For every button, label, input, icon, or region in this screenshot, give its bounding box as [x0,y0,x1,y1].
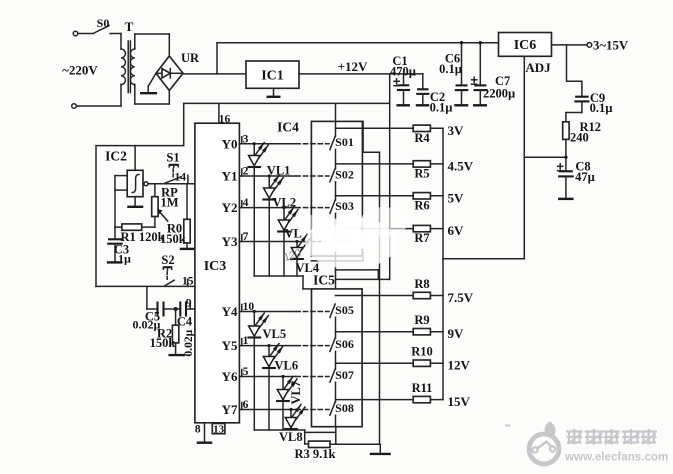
node 15V tap [448,394,471,409]
svg-text:VL6: VL6 [275,359,299,373]
switch S1 [165,151,181,184]
ground (C7) [473,104,487,106]
svg-text:150k: 150k [160,232,186,246]
capacitor C6 0.1µ [439,43,468,105]
svg-text:S01: S01 [335,135,354,149]
svg-text:VL: VL [285,227,302,241]
svg-text:+12V: +12V [338,59,368,74]
switch S05 [296,296,443,318]
svg-text:5V: 5V [448,190,465,205]
svg-text:S03: S03 [335,199,354,213]
svg-text:0.02µ: 0.02µ [183,329,195,356]
svg-text:www.elecfans.com: www.elecfans.com [564,451,668,464]
svg-text:6V: 6V [448,223,465,238]
switch S04 [296,229,443,248]
switch S06 [296,332,443,352]
svg-text:15: 15 [182,276,194,288]
wire switch rail segment [335,213,337,234]
node 9V tap [448,326,465,341]
watermark small dash [505,425,510,427]
pin 15 tick [182,276,205,293]
wire S2 branch down [146,286,148,309]
node 3V tap [448,123,465,138]
svg-text:8: 8 [195,424,201,436]
analog switch IC5 box [312,273,363,427]
svg-text:2200µ: 2200µ [483,87,515,101]
wire Y5 row / pin 1 [222,335,296,353]
svg-text:Y7: Y7 [222,402,238,417]
switch S0 input terminal (top) [73,31,93,36]
svg-text:S06: S06 [335,337,354,351]
wire ADJ to resistor bus [443,258,524,260]
node 5V tap [448,190,465,205]
resistor R2 150k [150,309,179,354]
switch S0 [93,16,121,34]
svg-text:IC5: IC5 [313,273,335,288]
capacitor C9 0.1µ [574,91,612,115]
svg-text:VL7: VL7 [289,381,303,405]
ground (R0) [180,248,195,250]
svg-text:0.1µ: 0.1µ [439,62,462,76]
svg-text:Y0: Y0 [222,136,238,151]
wire IC6 ADJ down [523,56,525,258]
switch S03 [296,196,443,214]
svg-text:R6: R6 [414,198,429,212]
resistor R6 [413,193,430,213]
svg-text:3: 3 [243,133,249,145]
input terminal (bottom) [72,104,121,109]
svg-text:10: 10 [243,301,255,313]
node Y3/VL4 junction [295,240,298,243]
svg-text:5: 5 [243,366,249,378]
svg-text:S07: S07 [335,368,354,382]
svg-text:1M: 1M [160,196,178,210]
label CP [196,177,213,192]
svg-text:S05: S05 [335,303,354,317]
wire switch rail segment [335,415,337,426]
capacitor C7 2200µ [472,43,516,105]
svg-text:47µ: 47µ [575,170,595,184]
wire pin 16 to IC3 [219,103,231,125]
regulator IC1 [246,61,299,88]
svg-text:IC3: IC3 [204,259,227,274]
svg-text:3V: 3V [448,123,465,138]
svg-text:R5: R5 [414,166,429,180]
node Y2/VL3 junction [282,206,285,209]
svg-text:IC2: IC2 [105,149,127,164]
ground (IC1) [267,88,281,97]
wire LED cathode bus (VL1-VL4) [254,276,311,289]
svg-text:3~15V: 3~15V [593,38,629,52]
svg-text:Y1: Y1 [222,169,238,184]
output terminal 3~15V [552,38,629,52]
capacitor C5 0.02µ [133,302,176,332]
timer IC2 box outline [96,146,184,287]
ground (C3) [107,261,123,263]
switch S02 [296,164,443,182]
ground (C1) [396,104,410,106]
resistor R12 240 [563,120,601,145]
svg-text:S0: S0 [97,16,110,30]
svg-text:14: 14 [175,172,187,184]
svg-text:T: T [125,19,134,34]
wire switch rail segment [335,150,337,169]
wire oscillator feedback [115,176,127,228]
resistor R1 120k [115,224,165,244]
svg-text:S08: S08 [335,401,354,415]
svg-text:S1: S1 [166,151,179,165]
node 7.5V tap [448,290,474,305]
wire switch rail segment [335,247,337,289]
svg-text:470µ: 470µ [390,65,416,79]
wire Y3 row / pin 7 [222,231,296,249]
capacitor C4 0.02µ [176,302,195,357]
svg-text:Y3: Y3 [222,234,238,249]
svg-text:7.5V: 7.5V [448,290,474,305]
svg-text:Y6: Y6 [222,369,238,384]
wire Y4 row / pin 10 [222,301,296,319]
wire top bus [217,42,499,44]
capacitor C3 1µ [107,227,131,265]
wire +12V rail [299,59,423,74]
resistor R11 [412,381,433,403]
watermark text 电子发烧友 [566,429,657,445]
ground (C6) [454,104,468,106]
svg-text:7: 7 [243,231,249,243]
resistor R0 150k [160,184,190,248]
pin 9 tick [186,298,214,317]
svg-text:150k: 150k [150,336,176,350]
wire secondary bottom to bridge [135,91,170,105]
svg-text:12V: 12V [448,358,471,373]
wire common down to ground bus [379,152,381,444]
ground (main) [370,444,391,454]
wire LED cathode bus (VL5-VL8) [254,430,335,444]
svg-text:240: 240 [570,131,589,145]
wire VDD bus [184,102,390,104]
svg-text:R8: R8 [414,277,429,291]
resistor R8 [413,277,430,299]
wire switch rail segment [335,351,337,369]
node C5/C4/R2 junction [174,307,178,311]
wire Y1 row / pin 2 [222,166,296,184]
watermark elecfans logo [529,421,559,464]
label ~220V [62,63,98,78]
node 4.5V tap [448,158,474,173]
svg-text:0.1µ: 0.1µ [590,101,613,115]
node Y7/VL8 junction [289,408,292,411]
node C7 on bus [479,41,482,44]
resistor R9 [413,313,430,335]
switch S07 [296,363,443,382]
transformer T secondary winding [130,34,134,104]
LED VL2 [262,175,296,276]
ground (C8) [558,198,574,200]
node Y0/VL1 junction [253,142,256,145]
svg-text:UR: UR [181,51,200,65]
LED VL1 [247,143,290,277]
svg-text:VL5: VL5 [263,327,287,341]
svg-text:15V: 15V [448,394,471,409]
LED VL8 [279,405,305,445]
wire output branch to C9 [567,45,582,96]
counter IC3 [195,123,240,423]
svg-text:IC6: IC6 [514,38,537,53]
svg-text:R7: R7 [414,231,429,245]
ground (C2) [416,104,430,106]
svg-text:IC4: IC4 [277,120,299,135]
wire jog below IC4 a [311,253,363,261]
switch S08 [296,400,443,416]
bridge rectifier UR [156,51,200,91]
svg-text:9: 9 [186,298,192,310]
svg-text:S2: S2 [161,253,174,267]
svg-text:R9: R9 [414,313,429,327]
transformer T core [125,19,134,93]
wire ADJ junction [524,156,567,159]
wire switch rail segment [335,382,337,402]
resistor R4 [413,125,430,145]
wire VDD to IC2 [183,103,185,145]
node Y6/VL7 junction [281,375,284,378]
node Y5/VL6 junction [267,344,270,347]
ground (IC3) [195,423,212,443]
pin 13 box [212,423,225,435]
svg-text:Y4: Y4 [222,304,238,319]
resistor R3 9.1k [295,441,381,461]
wire C9 to R12 [566,113,582,122]
capacitor C8 47µ [558,157,595,198]
label ADJ [525,60,551,75]
svg-text:13: 13 [213,423,225,435]
node 6V tap [448,223,465,238]
wire switch rail segment [335,317,337,338]
capacitor C1 470µ [390,54,416,104]
ground (oscillator) [127,197,143,207]
capacitor C2 0.1µ [416,74,452,115]
wire LED return to R3 [305,443,309,445]
svg-text:R11: R11 [412,381,433,395]
wire Y7 row / pin 6 [222,399,296,417]
svg-text:ADJ: ADJ [525,60,551,75]
svg-text:9V: 9V [448,326,465,341]
svg-text:4.5V: 4.5V [448,158,474,173]
wire jog below IC4 b [336,270,379,280]
switch S01 [296,128,443,149]
svg-text:6: 6 [243,399,249,411]
wire IC2 to oscillator [134,146,136,171]
wire IC4 common jog [363,121,379,152]
transformer T primary winding [121,34,125,107]
node Y4/VL5 junction [253,310,256,313]
svg-text:0.1µ: 0.1µ [430,101,453,115]
svg-text:Y5: Y5 [222,338,238,353]
svg-text:R10: R10 [411,345,433,359]
wire node to top bus [216,43,218,74]
watermark blur blob [282,207,408,269]
analog switch IC4 box [277,120,362,257]
wire switch rail from VDD [335,103,337,136]
svg-text:S02: S02 [335,167,354,181]
wire Y6 row / pin 5 [222,366,296,384]
resistor R7 [413,225,430,245]
potentiometer RP 1M [152,184,179,227]
LED VL7 [276,377,303,431]
wire Y2 row / pin 4 [222,197,296,215]
wire +12V down to switch common [389,74,391,280]
svg-text:VL8: VL8 [279,430,303,444]
svg-text:Y2: Y2 [222,200,238,215]
svg-text:IC1: IC1 [261,69,284,84]
resistor R10 [411,345,433,367]
svg-text:R4: R4 [414,131,430,145]
node Y1/VL2 junction [268,174,271,177]
wire secondary top to bridge [135,34,170,56]
svg-text:R3 9.1k: R3 9.1k [295,447,336,461]
wire R12 to ADJ junction [565,139,567,157]
wire R line (IC2 bottom) [96,285,195,287]
wire Y0 row / pin 3 [222,133,296,151]
svg-text:~220V: ~220V [62,63,98,78]
oscillator element (IC2) [127,170,148,196]
wire switch rail segment [335,182,337,200]
wire resistor common bus [442,128,444,399]
node C6 on bus [460,41,463,44]
wire bridge output to IC1 [183,73,246,75]
LED VL5 [247,312,286,431]
svg-text:4: 4 [243,197,249,209]
ground (bridge) [140,73,157,93]
LED VL3 [277,207,302,276]
switch S2 [161,253,174,286]
watermark url [564,451,668,464]
ground (R2) [168,354,185,356]
node 12V tap [448,358,471,373]
wire jog below IC4 c [336,278,390,280]
wire rail below IC5 to ground bus [335,427,337,444]
LED VL4 [290,235,320,277]
wire CP line [148,183,195,185]
pin 14 tick [175,172,188,184]
LED VL6 [262,344,298,431]
regulator IC6 [499,33,552,57]
resistor R5 [413,161,430,181]
